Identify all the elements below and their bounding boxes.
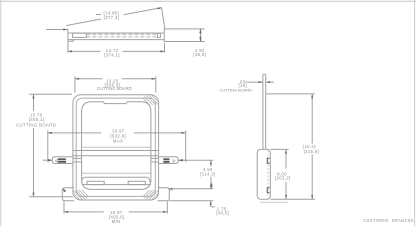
left clip spring bend [56, 160, 58, 162]
frame outer contour [73, 95, 159, 200]
dim (14.85) right arrowhead [158, 8, 162, 10]
dim 14.73 extension left [67, 42, 69, 53]
tray tab right [128, 181, 145, 184]
holder body [257, 149, 270, 199]
svg-text:[416,8]: [416,8] [304, 149, 320, 154]
right foot leader arrowhead [168, 188, 173, 191]
right wall block [158, 33, 161, 37]
dim 4.50 bottom extension [168, 188, 213, 190]
dim 15.97 line [64, 211, 104, 213]
border frame right [414, 0, 416, 226]
dim 1.75 bottom extension [169, 200, 213, 202]
dim 16.4 top extension [266, 93, 315, 95]
svg-text:CUTTING BOARD: CUTTING BOARD [220, 87, 253, 92]
dim 1.92 extension ticks [201, 28, 205, 30]
dim .63 right arrow [266, 81, 274, 83]
lower tray faint line [82, 172, 151, 174]
upper rail faint line [82, 146, 151, 148]
left wall block [73, 33, 87, 37]
right clip leader arrow [179, 159, 214, 161]
dim 14.73 line [68, 50, 101, 52]
dim 8.00 line [285, 149, 287, 168]
border frame top [0, 0, 416, 2]
body under line [260, 201, 288, 203]
cutting board blade left edge [262, 74, 264, 149]
svg-text:[203,2]: [203,2] [275, 176, 291, 181]
frame inner opening with notch [82, 102, 151, 190]
dim 15.75 top extension [29, 93, 72, 95]
clip slot lines left [73, 157, 82, 159]
right clip outline [159, 157, 179, 164]
svg-text:CUTTING BOARD: CUTTING BOARD [97, 86, 132, 91]
dim 1.92 arrows [199, 29, 201, 34]
svg-text:CUSTOMER DRAWING: CUSTOMER DRAWING [363, 218, 413, 224]
groove line lower [86, 36, 157, 38]
dim 1.75 lower arrow and elbow [210, 201, 212, 207]
cutting board blade right edge [265, 74, 267, 149]
board top slant line [66, 19, 101, 26]
clip slot lines right [151, 157, 159, 159]
left clip leader arrow [43, 159, 53, 161]
dim 13.25 extension lines [74, 76, 76, 92]
clip section lower [267, 188, 269, 193]
dim 14.73 extension right [164, 43, 166, 53]
bar left end lip [68, 40, 73, 42]
right clip grip bar upper [163, 158, 169, 160]
blade hidden line [267, 150, 269, 196]
left clip grip bar lower [58, 161, 66, 163]
corner hatch top-right [143, 95, 159, 105]
svg-text:[48,8]: [48,8] [193, 52, 206, 57]
left clip grip bar upper [58, 158, 66, 160]
dim 15.97 extension lines [63, 202, 65, 214]
groove line upper [86, 33, 157, 35]
left foot [62, 188, 74, 201]
dim 16.4 line [311, 94, 313, 144]
lower tray rim [82, 177, 150, 182]
dim 1.75 upper arrow [211, 182, 213, 189]
right foot [158, 188, 170, 201]
left clip outline [52, 157, 73, 164]
board right end edge [162, 8, 165, 29]
svg-text:[400,1]: [400,1] [29, 117, 45, 122]
lower tray floor line [82, 184, 151, 186]
clip section upper [267, 158, 269, 163]
corner hatch bottom-right [143, 190, 159, 200]
dim 20.97 left extension [47, 130, 49, 162]
svg-text:[44,5]: [44,5] [216, 210, 229, 215]
svg-text:MIN: MIN [112, 219, 121, 224]
svg-text:MAX: MAX [113, 139, 123, 144]
frame mid contour [76, 98, 155, 196]
blade top cap [263, 73, 266, 75]
dim 15.75 line [33, 94, 35, 111]
svg-text:[374,1]: [374,1] [104, 52, 120, 57]
dim 13.25 line [75, 78, 103, 80]
dim 15.75 bottom extension [29, 196, 73, 198]
right clip spring bend [173, 160, 175, 162]
dim 4.50 line [210, 160, 212, 166]
dim 20.97 line [48, 132, 101, 134]
dim (14.85) left arrow [46, 29, 68, 31]
right clip grip bar lower [163, 161, 169, 163]
tray tab left [87, 181, 104, 184]
upper rail line 1 [73, 150, 158, 152]
border frame left [0, 0, 2, 226]
dim 8.00 bottom extension [270, 198, 315, 200]
dim 20.97 right extension [185, 130, 187, 162]
holder bar left end [67, 29, 69, 40]
upper rail line 2 [73, 155, 158, 157]
left foot leader arrowhead [63, 188, 67, 192]
side rail block [164, 29, 200, 42]
svg-text:[377,3]: [377,3] [104, 15, 120, 20]
holder bar bottom edge [68, 39, 164, 41]
holder bar top edge [68, 32, 164, 34]
corner hatch bottom-left [73, 190, 89, 200]
dim .63 left arrow [246, 81, 263, 83]
dim 8.00 top extension [270, 148, 288, 150]
svg-text:[114,3]: [114,3] [200, 171, 215, 176]
svg-text:CUTTING BOARD: CUTTING BOARD [16, 122, 56, 127]
